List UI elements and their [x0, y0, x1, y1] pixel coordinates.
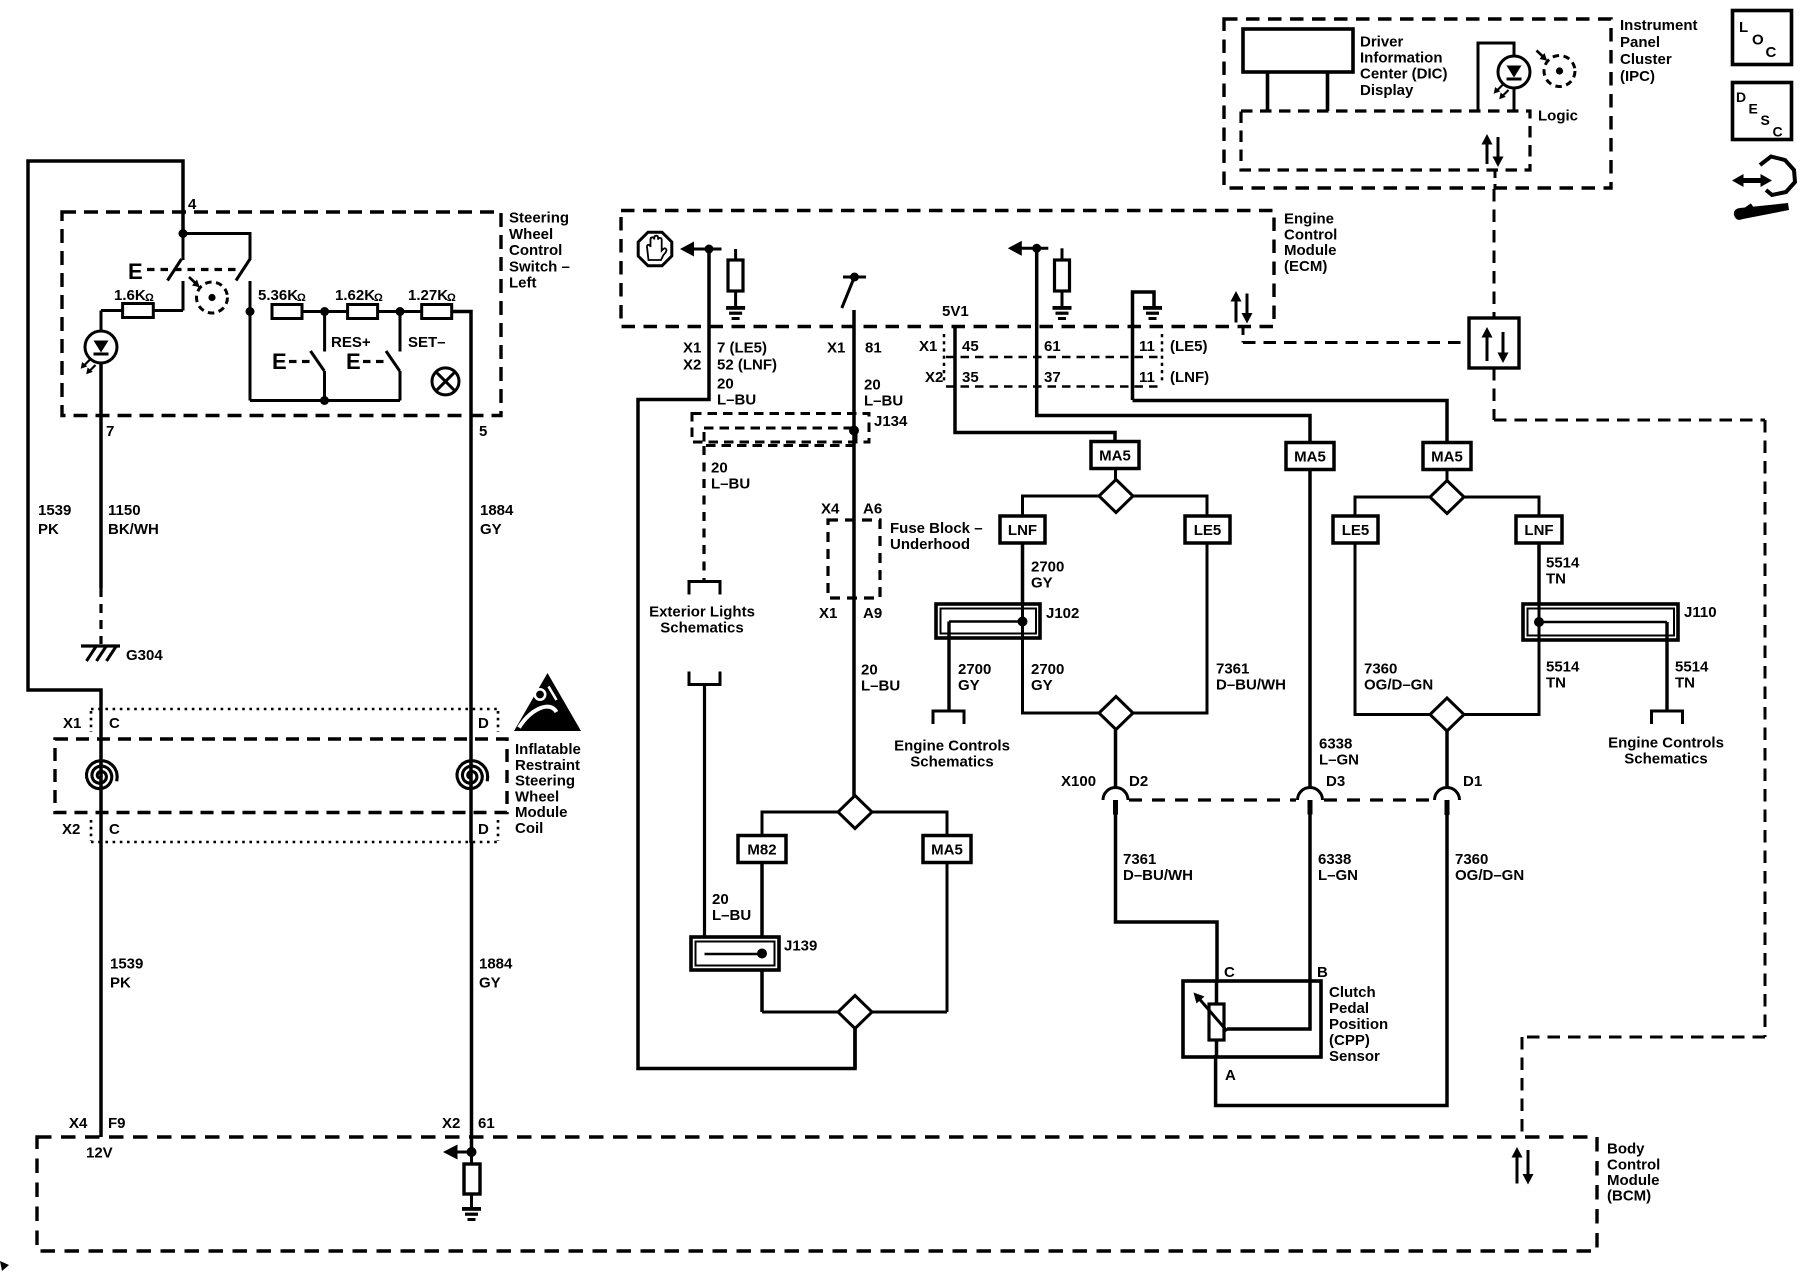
wire J139 internal branch — [705, 953, 763, 956]
svg-text:Schematics: Schematics — [1624, 751, 1707, 768]
wire LED to 1.6K resistor to switch — [153, 309, 183, 312]
svg-text:L–BU: L–BU — [717, 392, 756, 409]
wire 7361 D2 to CPP pin C — [1116, 814, 1218, 983]
svg-text:TN: TN — [1675, 675, 1695, 692]
pigtail engine controls schematics right — [1652, 711, 1683, 724]
svg-text:81: 81 — [865, 340, 882, 357]
ground G304 chassis symbol — [81, 644, 120, 647]
body control module BCM dashed box — [37, 1137, 1597, 1251]
svg-text:20: 20 — [864, 377, 881, 394]
svg-text:Engine Controls: Engine Controls — [894, 738, 1010, 755]
svg-text:1.6K: 1.6K — [114, 287, 146, 304]
svg-text:7360: 7360 — [1364, 661, 1397, 678]
wire diamond3 to LE5 right loop — [1355, 497, 1430, 516]
connector tick dotted right of pin 11 — [1161, 334, 1164, 384]
svg-text:LE5: LE5 — [1342, 522, 1370, 539]
svg-text:Steering: Steering — [515, 773, 575, 790]
svg-text:2700: 2700 — [1031, 559, 1064, 576]
svg-text:Logic: Logic — [1538, 108, 1578, 125]
wire 7360 D1 down to CPP pin A return — [1216, 815, 1447, 1106]
wire pins 61 37 to MA5 option 2 — [1037, 248, 1310, 442]
splice pack J139 — [691, 937, 779, 970]
svg-text:Clutch: Clutch — [1329, 984, 1376, 1001]
svg-text:Display: Display — [1360, 82, 1414, 99]
icon arrows navigation — [1732, 174, 1744, 187]
svg-text:A9: A9 — [863, 605, 882, 622]
svg-text:BK/WH: BK/WH — [108, 521, 159, 538]
svg-text:PK: PK — [110, 975, 131, 992]
svg-text:Restraint: Restraint — [515, 757, 580, 774]
svg-text:X2: X2 — [62, 821, 80, 838]
wire diamond3 to LNF right loop — [1464, 497, 1539, 516]
switch S2 on/off right blade — [236, 259, 250, 281]
svg-text:Inflatable: Inflatable — [515, 741, 581, 758]
dashed serial data wire logic to bottom — [1494, 170, 1497, 189]
svg-text:GY: GY — [958, 677, 980, 694]
svg-text:D: D — [478, 715, 489, 732]
svg-text:S: S — [1761, 112, 1770, 128]
ECM to IPC dashed link — [1242, 327, 1245, 343]
svg-text:Sensor: Sensor — [1329, 1048, 1380, 1065]
svg-text:O: O — [1752, 32, 1764, 49]
svg-text:GY: GY — [480, 521, 502, 538]
svg-text:SET–: SET– — [408, 334, 446, 351]
svg-text:L: L — [1739, 19, 1748, 36]
stop lamp octagon symbol — [638, 232, 672, 266]
svg-text:Underhood: Underhood — [890, 536, 970, 553]
svg-text:G304: G304 — [126, 647, 163, 664]
svg-text:D: D — [478, 821, 489, 838]
lamp symbol circle-X — [432, 368, 459, 395]
svg-text:Steering: Steering — [509, 210, 569, 227]
option box MA5 first — [1091, 442, 1139, 469]
svg-text:(CPP): (CPP) — [1329, 1032, 1370, 1049]
svg-text:X4: X4 — [821, 501, 840, 518]
cruise indicator LED — [85, 331, 117, 363]
svg-text:F9: F9 — [108, 1115, 126, 1132]
CPP internal wire B to wiper — [1227, 983, 1310, 1029]
wire A9 to diamond2 — [852, 598, 856, 796]
connector X100 bump D2 — [1103, 788, 1128, 801]
svg-text:E: E — [272, 349, 287, 374]
svg-text:52 (LNF): 52 (LNF) — [717, 357, 777, 374]
svg-text:Driver: Driver — [1360, 34, 1404, 51]
diamond split option 1 top — [1114, 469, 1117, 480]
svg-text:Fuse Block –: Fuse Block – — [890, 520, 983, 537]
svg-text:Schematics: Schematics — [660, 620, 743, 637]
node BCM input junction — [467, 1147, 477, 1157]
svg-text:1884: 1884 — [480, 502, 514, 519]
option box MA5 second — [1286, 443, 1334, 470]
svg-text:(BCM): (BCM) — [1607, 1188, 1651, 1205]
svg-text:7: 7 — [106, 423, 114, 440]
wire 6338 D3 to CPP pin B — [1308, 814, 1312, 983]
potentiometer body CPP — [1215, 981, 1219, 1004]
svg-text:Engine: Engine — [1284, 211, 1334, 228]
svg-text:Instrument: Instrument — [1620, 17, 1698, 34]
dashed serial data wire arrow box to BCM — [1493, 368, 1496, 420]
svg-text:61: 61 — [478, 1115, 495, 1132]
svg-text:2700: 2700 — [958, 661, 991, 678]
connector X100 dashed line — [1129, 798, 1296, 801]
svg-text:TN: TN — [1546, 675, 1566, 692]
svg-text:5514: 5514 — [1546, 659, 1580, 676]
svg-text:M82: M82 — [747, 842, 776, 859]
svg-text:Module: Module — [515, 804, 568, 821]
resistor R-1.62K body — [348, 305, 378, 319]
IPC indicator LED loop wires — [1513, 89, 1516, 112]
svg-text:Position: Position — [1329, 1016, 1388, 1033]
node: pin4 junction — [179, 229, 188, 238]
wire through fuse block — [852, 520, 856, 598]
svg-text:5514: 5514 — [1546, 555, 1580, 572]
svg-text:GY: GY — [1031, 677, 1053, 694]
wire MA5 second to X100 D3 — [1308, 470, 1312, 788]
svg-text:Pedal: Pedal — [1329, 1000, 1369, 1017]
engine control module ECM dashed box — [621, 211, 1274, 327]
wire LNF below J102 to diamond — [1023, 604, 1100, 713]
svg-text:5.36K: 5.36K — [258, 287, 298, 304]
svg-text:GY: GY — [1031, 575, 1053, 592]
resistor ECM pull-up 2 — [1061, 248, 1064, 260]
wire ladder bottom return — [249, 312, 252, 401]
node ECM cruise signal junction — [705, 245, 714, 254]
node J139 splice dot — [757, 949, 767, 959]
fuse block underhood dashed box — [828, 520, 880, 598]
svg-text:D3: D3 — [1326, 773, 1345, 790]
svg-text:37: 37 — [1044, 369, 1061, 386]
svg-text:Control: Control — [1284, 227, 1337, 244]
node J110 splice dot — [1534, 617, 1544, 627]
svg-text:LNF: LNF — [1008, 522, 1037, 539]
hand glyph in octagon — [647, 236, 666, 260]
diamond split transmission top — [838, 796, 872, 829]
page corner mark — [0, 1261, 9, 1271]
svg-text:7 (LE5): 7 (LE5) — [717, 340, 767, 357]
wire 1539 PK coil to BCM — [99, 843, 103, 1137]
option box MA5 third — [1423, 443, 1471, 470]
coil spiral left — [99, 710, 103, 843]
wire J110 down to diamond4 — [1464, 604, 1539, 715]
svg-text:20: 20 — [861, 662, 878, 679]
svg-text:Wheel: Wheel — [515, 788, 559, 805]
option box LNF right loop — [1516, 516, 1562, 543]
svg-text:D: D — [1736, 89, 1746, 105]
svg-text:X4: X4 — [69, 1115, 88, 1132]
wire circuit 1539 pin 4 feed: top elbow from pin 4 down left edge — [28, 161, 183, 710]
svg-text:12V: 12V — [86, 1145, 113, 1162]
svg-text:6338: 6338 — [1318, 851, 1351, 868]
svg-text:6338: 6338 — [1319, 736, 1352, 753]
svg-text:Information: Information — [1360, 50, 1443, 67]
splice pack J110 — [1523, 604, 1678, 640]
wire pins 11 to MA5 option 3 — [1133, 401, 1448, 444]
svg-text:E: E — [128, 259, 143, 284]
svg-text:5: 5 — [479, 423, 487, 440]
wire 1.27K to pin 5 — [452, 312, 471, 417]
svg-text:J102: J102 — [1046, 605, 1079, 622]
svg-text:L–BU: L–BU — [712, 907, 751, 924]
wire LNF to J102 — [1021, 543, 1025, 638]
svg-text:7361: 7361 — [1216, 661, 1249, 678]
svg-text:1.62K: 1.62K — [335, 287, 375, 304]
wire 20 L-BU dashed branch to exterior lights — [702, 446, 705, 581]
warning triangle airbag icon — [514, 673, 581, 731]
arrows up-down logic serial data — [1486, 143, 1489, 165]
wire ECM pin7/52 cruise switch signal — [638, 249, 855, 1069]
svg-text:X1: X1 — [683, 340, 701, 357]
svg-text:5514: 5514 — [1675, 659, 1709, 676]
switch ECM internal sense — [843, 276, 866, 279]
svg-text:X1: X1 — [63, 715, 81, 732]
potentiometer wiper arrow CPP — [1199, 999, 1227, 1032]
wire 1150 dashed to ground — [99, 588, 102, 644]
svg-text:L–GN: L–GN — [1318, 867, 1358, 884]
wire left branch into diamond2b — [762, 1011, 838, 1014]
svg-text:7360: 7360 — [1455, 851, 1488, 868]
ground ECM internal 1 — [726, 306, 745, 310]
svg-text:61: 61 — [1044, 338, 1061, 355]
svg-text:(ECM): (ECM) — [1284, 258, 1327, 275]
svg-text:C: C — [1224, 964, 1235, 981]
svg-text:OG/D–GN: OG/D–GN — [1455, 867, 1524, 884]
ground BCM internal — [462, 1207, 481, 1211]
svg-text:20: 20 — [717, 376, 734, 393]
wire 1884 GY pin5 down to coil — [469, 416, 473, 843]
svg-text:C: C — [1773, 124, 1783, 140]
svg-text:C: C — [109, 821, 120, 838]
wire diamond1 to LNF — [1023, 496, 1100, 516]
resistor ECM pull-up 1 — [734, 249, 737, 260]
svg-text:Exterior Lights: Exterior Lights — [649, 604, 755, 621]
IPC indicator LED — [1498, 56, 1530, 88]
wire MA5 branch down — [946, 862, 949, 1012]
svg-text:5V1: 5V1 — [942, 303, 969, 320]
svg-text:Ω: Ω — [297, 292, 306, 304]
wire ladder segment 2 — [378, 310, 422, 313]
wire diamond4 to X100 D1 — [1445, 731, 1449, 788]
pigtail engine controls schematics left — [933, 711, 964, 724]
steering wheel control switch dashed box — [62, 212, 501, 416]
svg-text:Schematics: Schematics — [910, 754, 993, 771]
node J134 splice dot — [849, 426, 859, 436]
svg-text:X1: X1 — [827, 340, 845, 357]
svg-text:2700: 2700 — [1031, 661, 1064, 678]
svg-text:A6: A6 — [863, 501, 882, 518]
resistor R-1.27K body — [422, 305, 452, 319]
arrow ECM 5V output — [1008, 241, 1022, 256]
node ECM 5V junction — [1032, 244, 1041, 253]
connector X100 ticks — [1113, 800, 1118, 815]
node D bottom junction — [320, 396, 329, 405]
svg-text:X1: X1 — [819, 605, 837, 622]
svg-text:E: E — [1749, 101, 1758, 117]
svg-text:X100: X100 — [1061, 773, 1096, 790]
node J102 splice dot — [1018, 617, 1028, 627]
svg-text:11: 11 — [1139, 338, 1155, 355]
svg-text:E: E — [346, 349, 361, 374]
wire diamond2b bottom corner — [853, 1029, 857, 1069]
arrows up-down ECM internal — [1235, 300, 1238, 323]
svg-text:X2: X2 — [442, 1115, 460, 1132]
wire LED down to pin 7 — [99, 363, 103, 588]
svg-text:35: 35 — [962, 369, 979, 386]
clutch pedal position sensor box — [1183, 981, 1321, 1057]
svg-text:Control: Control — [509, 242, 562, 259]
wire 1884 GY coil to BCM — [470, 843, 474, 1152]
svg-text:Ω: Ω — [447, 292, 456, 304]
gauge icon cruise control symbol — [197, 282, 228, 313]
pigtail from exterior lights schematics bottom — [689, 672, 720, 685]
arrow ECM stop output — [680, 242, 694, 257]
node A ladder junction left — [246, 307, 255, 316]
svg-text:TN: TN — [1546, 571, 1566, 588]
svg-text:Wheel: Wheel — [509, 226, 553, 243]
connector tick dotted left of pin 45 — [943, 334, 946, 384]
svg-text:X1: X1 — [919, 338, 937, 355]
connector X100 bump D3 — [1298, 788, 1323, 801]
svg-text:X2: X2 — [925, 369, 943, 386]
option box LE5 left loop — [1185, 516, 1230, 543]
svg-text:L–BU: L–BU — [711, 476, 750, 493]
dashed serial data wire IPC to arrow box — [1493, 189, 1496, 318]
svg-text:1.27K: 1.27K — [408, 287, 448, 304]
svg-text:GY: GY — [479, 975, 501, 992]
resistor R-1.6K body — [123, 304, 154, 318]
svg-text:PK: PK — [38, 521, 59, 538]
pigtail to exterior lights schematics top — [689, 582, 720, 595]
wire diamond1 to LE5 — [1133, 496, 1207, 516]
svg-text:Center (DIC): Center (DIC) — [1360, 66, 1448, 83]
wire diamond2 to MA5 branch — [872, 812, 947, 836]
splice pack J134 dashed boxes — [692, 414, 869, 443]
wire LE5 right loop down — [1355, 543, 1430, 715]
ground ECM internal 2 — [1053, 306, 1072, 310]
svg-text:Module: Module — [1284, 242, 1337, 259]
svg-text:Engine Controls: Engine Controls — [1608, 735, 1724, 752]
wire diamond to X100 D2 — [1114, 730, 1118, 788]
svg-text:7361: 7361 — [1123, 851, 1156, 868]
diamond merge option 3 bottom — [1430, 698, 1464, 731]
option box M82 — [738, 836, 786, 863]
svg-text:OG/D–GN: OG/D–GN — [1364, 677, 1433, 694]
svg-text:Coil: Coil — [515, 820, 543, 837]
svg-text:D1: D1 — [1463, 773, 1482, 790]
svg-text:LNF: LNF — [1524, 522, 1553, 539]
svg-text:(IPC): (IPC) — [1620, 68, 1655, 85]
wire LE5 down left loop — [1133, 543, 1207, 713]
option box LE5 right loop — [1333, 516, 1378, 543]
svg-text:X2: X2 — [683, 357, 701, 374]
wire LNF right to J110 — [1537, 543, 1541, 640]
svg-text:A: A — [1225, 1067, 1236, 1084]
logic dashed box IPC — [1241, 111, 1530, 170]
IPC gauge icon — [1544, 56, 1575, 87]
coil spiral right — [457, 761, 488, 789]
wire J102 internal branch — [949, 620, 1023, 623]
svg-text:L–BU: L–BU — [864, 393, 903, 410]
arrows up-down BCM serial data — [1516, 1156, 1519, 1184]
option box MA5 fourth — [923, 836, 971, 863]
svg-text:Panel: Panel — [1620, 34, 1660, 51]
wire 5V1 to MA5 option 1 — [955, 327, 1115, 442]
wire M82 down through J139 — [760, 862, 764, 1012]
svg-text:C: C — [1766, 44, 1777, 61]
svg-text:J139: J139 — [784, 938, 817, 955]
node B ladder junction mid — [320, 307, 329, 316]
arrows up-down in serial data box — [1486, 336, 1489, 362]
svg-text:1884: 1884 — [479, 956, 513, 973]
svg-text:MA5: MA5 — [1431, 449, 1463, 466]
svg-text:D–BU/WH: D–BU/WH — [1123, 867, 1193, 884]
svg-text:Ω: Ω — [374, 292, 383, 304]
svg-text:Module: Module — [1607, 1172, 1660, 1189]
splice pack J102 — [936, 604, 1040, 638]
wire 20 L-BU exterior lights to J139 — [703, 685, 706, 955]
svg-text:1150: 1150 — [108, 502, 141, 519]
node C ladder junction right — [396, 307, 405, 316]
driver information center DIC display box — [1243, 29, 1353, 72]
svg-text:MA5: MA5 — [1294, 449, 1326, 466]
svg-text:Cluster: Cluster — [1620, 51, 1672, 68]
svg-text:D2: D2 — [1129, 773, 1148, 790]
icon box DESC — [1733, 83, 1792, 140]
diamond merge transmission bottom — [838, 996, 872, 1029]
serial data arrow box between ECM and BCM — [1469, 318, 1519, 368]
icon box LOC — [1733, 11, 1792, 65]
wire to right switch blade — [183, 234, 250, 261]
diamond merge option 1 bottom — [1099, 697, 1133, 730]
switch S1 on/off left blade — [182, 234, 185, 261]
svg-text:J134: J134 — [874, 413, 908, 430]
connector X100 bump D1 — [1435, 788, 1460, 801]
wire J110 internal branch — [1539, 621, 1667, 624]
svg-text:(LNF): (LNF) — [1170, 369, 1209, 386]
wire diamond2 to M82 — [762, 812, 838, 836]
svg-text:MA5: MA5 — [1099, 448, 1131, 465]
svg-text:1539: 1539 — [110, 956, 143, 973]
svg-text:20: 20 — [712, 891, 729, 908]
connector X2 dotted line steering coil — [91, 841, 500, 844]
svg-text:45: 45 — [962, 338, 979, 355]
svg-text:(LE5): (LE5) — [1170, 338, 1208, 355]
option box LNF left loop — [1000, 516, 1045, 543]
diamond split option 3 top — [1446, 469, 1449, 480]
svg-text:C: C — [109, 715, 120, 732]
svg-text:D–BU/WH: D–BU/WH — [1216, 677, 1286, 694]
svg-text:J110: J110 — [1684, 604, 1717, 621]
inflatable restraint steering wheel module coil dashed box — [55, 739, 507, 813]
svg-text:MA5: MA5 — [931, 842, 963, 859]
svg-text:L–GN: L–GN — [1319, 752, 1359, 769]
svg-text:L–BU: L–BU — [861, 678, 900, 695]
resistor R-5.36K body — [272, 305, 302, 319]
connector X1 dotted line steering coil — [91, 708, 500, 711]
resistor BCM pull-down body — [470, 1152, 473, 1164]
arrow BCM internal left — [443, 1145, 458, 1160]
wire ladder segment 1 — [302, 310, 348, 313]
instrument panel cluster IPC dashed box — [1224, 19, 1611, 188]
svg-text:11: 11 — [1139, 369, 1155, 386]
connector row separator dashes — [946, 356, 1162, 359]
svg-text:B: B — [1317, 964, 1328, 981]
svg-text:Left: Left — [509, 275, 537, 292]
svg-text:20: 20 — [711, 460, 728, 477]
svg-text:LE5: LE5 — [1194, 522, 1222, 539]
svg-text:Control: Control — [1607, 1157, 1660, 1174]
ground ECM internal 3 with elbow — [1133, 292, 1155, 400]
svg-text:Body: Body — [1607, 1141, 1645, 1158]
